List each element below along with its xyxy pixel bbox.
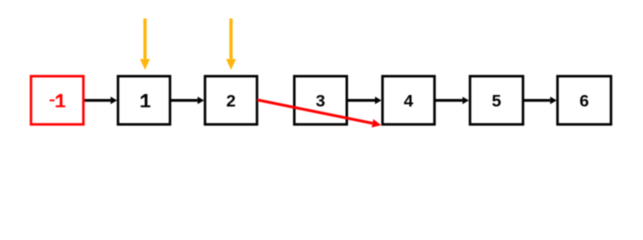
svg-text:6: 6	[579, 92, 588, 111]
orange pointer arrow over node 1	[143, 19, 146, 59]
svg-text:5: 5	[492, 92, 501, 111]
node box 6	[558, 76, 612, 124]
node box 4	[383, 76, 435, 124]
label -1	[50, 94, 66, 107]
node box 3	[294, 76, 347, 124]
node box 1	[118, 76, 170, 124]
svg-text:2: 2	[226, 92, 235, 111]
orange pointer arrow over node 2	[229, 19, 232, 59]
node box -1 (red dummy head)	[31, 76, 83, 124]
svg-text:3: 3	[316, 92, 325, 111]
red skip arrow 2 to 4	[257, 100, 372, 123]
node box 2	[205, 76, 257, 124]
label 1	[141, 94, 151, 107]
node box 5	[470, 76, 523, 124]
wire arrow 4 to 5	[435, 99, 463, 102]
wire arrow -1 to 1	[83, 99, 110, 102]
wire arrow 1 to 2	[170, 99, 198, 102]
svg-text:4: 4	[404, 92, 414, 111]
wire arrow 3 to 4	[347, 99, 375, 102]
wire arrow 5 to 6	[523, 99, 550, 102]
